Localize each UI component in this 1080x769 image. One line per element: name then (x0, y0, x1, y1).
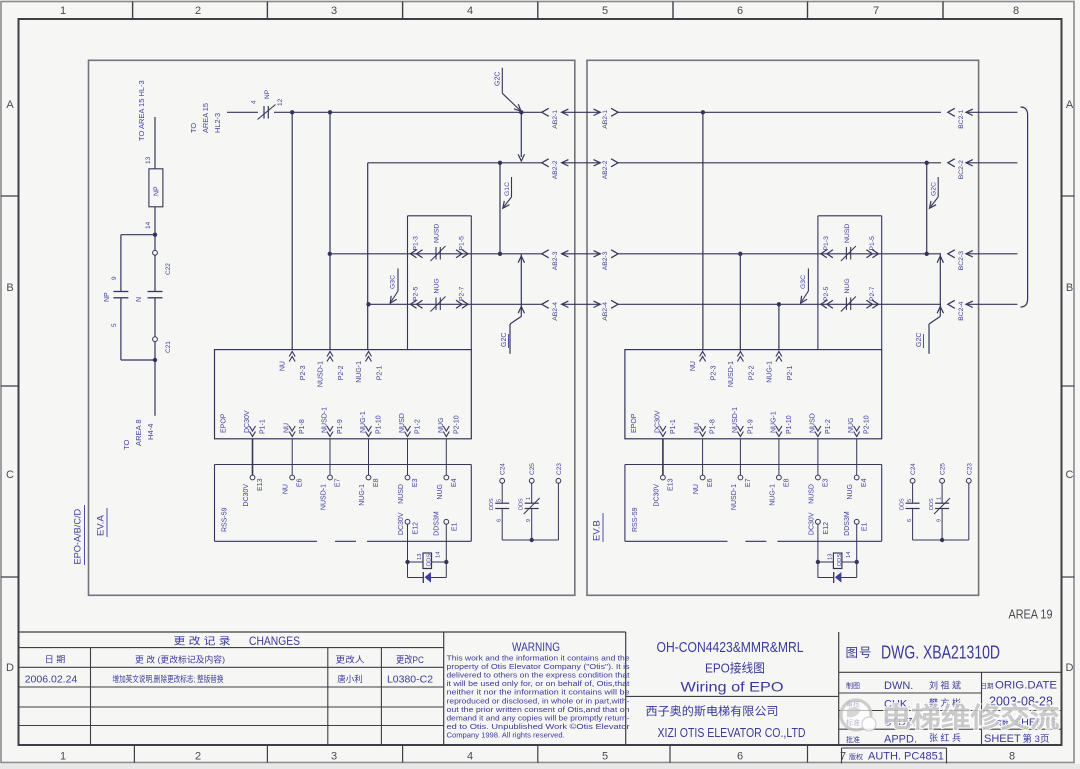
svg-text:P2-3: P2-3 (711, 365, 718, 380)
svg-text:G2C: G2C (916, 333, 923, 347)
svg-text:E6: E6 (297, 478, 304, 487)
svg-text:ORIG.DATE: ORIG.DATE (995, 680, 1057, 692)
net arrows AB2-4 between EV.A and EV.B (542, 300, 648, 321)
svg-text:NUG-1: NUG-1 (766, 361, 773, 383)
svg-text:5: 5 (497, 499, 503, 502)
capacitor N (148, 291, 163, 293)
node AB2-3 drop (EV.B) (738, 252, 742, 256)
svg-text:1: 1 (60, 751, 66, 763)
node AB2-1 drop (EV.B) (701, 110, 705, 114)
svg-text:P2-1: P2-1 (787, 365, 794, 380)
svg-text:3: 3 (331, 5, 337, 17)
svg-text:电梯维修交流: 电梯维修交流 (882, 702, 1060, 733)
switch G1C (500, 163, 512, 254)
svg-text:NU: NU (283, 484, 290, 494)
wire NU vertical (EV.B) (702, 112, 704, 350)
wire NU vertical (291, 112, 293, 349)
svg-text:G1C: G1C (504, 182, 511, 196)
terminal C23 (EV.A) (556, 463, 563, 540)
svg-text:NUG-1: NUG-1 (770, 411, 777, 433)
drawing number cell (839, 643, 1062, 673)
RSS-59 terminals E12/E1 (EV.A) (398, 511, 458, 536)
svg-text:EPOP: EPOP (221, 413, 228, 433)
svg-text:DDS3M: DDS3M (844, 511, 851, 536)
svg-text:2: 2 (195, 751, 201, 763)
wire NUG-1 vertical (EV.B) (778, 304, 780, 350)
svg-text:P2-2: P2-2 (748, 365, 755, 380)
auth row (842, 748, 947, 764)
svg-text:1: 1 (60, 5, 66, 17)
bus wire AB2-1 (EV.B) (648, 111, 941, 113)
bus wire AB2-2 (EV.B) (648, 162, 941, 164)
wire left branch down (120, 298, 122, 360)
svg-text:2: 2 (195, 5, 201, 17)
svg-text:N: N (136, 297, 143, 302)
svg-text:8: 8 (1009, 751, 1015, 763)
svg-text:NU: NU (693, 484, 700, 494)
svg-text:DDS: DDS (427, 554, 433, 566)
svg-text:西子奥的斯电梯有限公司: 西子奥的斯电梯有限公司 (646, 704, 779, 718)
svg-text:P1-3: P1-3 (413, 236, 420, 251)
svg-text:7: 7 (873, 5, 879, 17)
svg-text:7: 7 (840, 751, 846, 763)
svg-text:更 改 (更改标记及内容): 更 改 (更改标记及内容) (135, 655, 225, 665)
svg-text:EV.A: EV.A (96, 515, 107, 536)
svg-text:NUG-1: NUG-1 (359, 484, 366, 506)
pins P2-5 / P2-7 with NUG (EV.A) (411, 278, 469, 311)
watermark logo and text (841, 700, 1060, 733)
svg-text:D: D (1066, 662, 1074, 674)
svg-text:RSS-59: RSS-59 (222, 507, 229, 532)
svg-text:AUTH. PC4851: AUTH. PC4851 (868, 751, 944, 763)
svg-text:E3: E3 (822, 478, 829, 487)
EPOP top pins P2-3/P2-2/P2-1 (EV.A) (280, 352, 384, 388)
svg-text:E3: E3 (412, 478, 419, 487)
svg-text:P1-10: P1-10 (376, 415, 383, 434)
svg-text:TO: TO (122, 439, 131, 450)
svg-text:批准: 批准 (846, 735, 860, 744)
svg-text:WARNING: WARNING (512, 642, 560, 654)
svg-text:12: 12 (277, 98, 284, 106)
pins P2-5 / P2-7 with NUG (EV.B) (821, 278, 879, 311)
svg-text:P2-5: P2-5 (823, 286, 830, 301)
svg-text:P1-10: P1-10 (786, 415, 793, 434)
svg-text:6: 6 (497, 519, 503, 522)
svg-text:E8: E8 (783, 478, 790, 487)
arrester C25 (EV.B) (929, 463, 950, 540)
switch G3C (on AB2-4, EV.A) (390, 269, 399, 304)
svg-text:日 期: 日 期 (45, 655, 66, 665)
P1 sub box (EV.B) (818, 216, 882, 350)
resistor NP (149, 169, 163, 207)
svg-text:P1-8: P1-8 (710, 419, 717, 434)
svg-text:E6: E6 (707, 478, 714, 487)
svg-text:DC30V: DC30V (808, 512, 815, 535)
wire G2C to AB2-2 (520, 112, 522, 157)
svg-text:XIZI OTIS ELEVATOR CO.,LTD: XIZI OTIS ELEVATOR CO.,LTD (658, 726, 806, 740)
wires EPOP to RSS-59 (EV.A) (253, 439, 447, 475)
svg-text:6: 6 (737, 751, 743, 763)
svg-text:NUSD: NUSD (398, 484, 405, 504)
svg-text:DDS: DDS (519, 498, 525, 510)
svg-text:NU: NU (280, 361, 287, 371)
svg-text:NUG: NUG (847, 484, 854, 500)
svg-text:版权: 版权 (849, 752, 863, 761)
bus wire AB2-4 (EV.A) (369, 303, 542, 305)
svg-text:EPO-A/B/C/D: EPO-A/B/C/D (73, 508, 83, 564)
svg-text:3: 3 (331, 751, 337, 763)
svg-text:NUSD: NUSD (844, 224, 851, 243)
svg-text:C21: C21 (165, 341, 172, 353)
svg-text:P1-5: P1-5 (459, 236, 466, 251)
svg-text:C24: C24 (500, 463, 507, 475)
svg-text:NU: NU (694, 423, 701, 433)
svg-text:NP: NP (264, 90, 271, 99)
svg-text:NUG-1: NUG-1 (360, 411, 367, 433)
svg-text:AREA 15: AREA 15 (201, 103, 210, 133)
svg-text:NUSD: NUSD (808, 484, 815, 504)
svg-text:E13: E13 (667, 478, 674, 491)
capacitor common wire (EV.B) (913, 538, 969, 542)
svg-text:BC2-2: BC2-2 (958, 160, 965, 179)
capacitor C24 (EV.A) (489, 463, 509, 540)
wire branch left (121, 234, 155, 236)
svg-text:AB2-1: AB2-1 (602, 110, 609, 129)
bus wire AB2-1 (EV.A) (274, 111, 542, 113)
bus wire AB2-4 (EV.B) (648, 303, 941, 305)
svg-text:更 改 记 录: 更 改 记 录 (174, 635, 231, 648)
node BC2-2 / G2C (EV.B) (925, 161, 929, 165)
svg-text:5: 5 (602, 5, 608, 17)
switch G3C (on AB2-4, EV.B) (800, 269, 809, 304)
EPOP bottom pins P1-1..P2-10 (EV.A) (244, 407, 460, 437)
svg-text:P1-1: P1-1 (260, 419, 267, 434)
svg-text:NUG-1: NUG-1 (769, 484, 776, 506)
svg-text:H4-4: H4-4 (146, 424, 155, 440)
svg-text:BC2-1: BC2-1 (958, 109, 965, 128)
svg-text:14: 14 (436, 551, 442, 558)
svg-text:DC30V: DC30V (244, 410, 251, 433)
svg-text:G3C: G3C (800, 275, 807, 289)
net arrows BC2-3 to right bracket (948, 250, 1018, 270)
svg-text:8: 8 (1013, 5, 1019, 17)
svg-text:5: 5 (602, 751, 608, 763)
svg-text:NUG: NUG (438, 417, 445, 433)
svg-text:G2C: G2C (495, 72, 502, 86)
svg-text:E13: E13 (257, 478, 264, 491)
svg-text:BC2-3: BC2-3 (958, 251, 965, 270)
svg-text:G2C: G2C (931, 182, 938, 196)
node AB2-1 / NU drop (290, 110, 294, 114)
svg-text:AREA 8: AREA 8 (134, 419, 143, 446)
switch G2C (EV.B, BC2-2 to BC2-3) (927, 163, 939, 254)
svg-text:图号: 图号 (845, 646, 872, 660)
svg-text:B: B (1066, 282, 1073, 294)
svg-text:L0380-C2: L0380-C2 (387, 674, 433, 686)
title block rows (839, 672, 1062, 745)
switch G2C (top, EV.A) (495, 68, 522, 112)
svg-text:P2-2: P2-2 (338, 365, 345, 380)
svg-text:P2-7: P2-7 (459, 286, 466, 301)
svg-text:EPOP: EPOP (631, 413, 638, 433)
svg-text:9: 9 (111, 276, 118, 280)
svg-text:NUSD-1: NUSD-1 (317, 361, 324, 387)
warning box (444, 632, 631, 745)
svg-text:NUSD-1: NUSD-1 (728, 361, 735, 387)
changes table (19, 632, 444, 745)
svg-text:9: 9 (937, 519, 943, 522)
EV.A block outline (89, 60, 575, 595)
svg-text:1: 1 (526, 497, 532, 500)
svg-text:刘 祖 斌: 刘 祖 斌 (929, 680, 961, 691)
svg-text:NU: NU (284, 423, 291, 433)
svg-text:E12: E12 (823, 522, 830, 535)
svg-text:RSS-59: RSS-59 (632, 507, 639, 532)
svg-text:唐小利: 唐小利 (337, 674, 363, 684)
terminal C23 (EV.B) (966, 463, 973, 540)
svg-text:CHANGES: CHANGES (249, 634, 300, 648)
suppressor DDS 13-14 (EV.A) (405, 524, 448, 568)
net arrows BC2-4 to right bracket (948, 300, 1018, 321)
svg-text:AB2-4: AB2-4 (602, 302, 609, 321)
svg-text:NUSD: NUSD (434, 224, 441, 243)
svg-text:AB2-4: AB2-4 (552, 302, 559, 321)
svg-text:P1-8: P1-8 (299, 419, 306, 434)
svg-text:日期: 日期 (981, 682, 995, 690)
svg-text:B: B (6, 282, 13, 294)
svg-text:DDS3M: DDS3M (434, 511, 441, 536)
bus wire AB2-2 (EV.A) (368, 162, 542, 164)
svg-text:EPO接线图: EPO接线图 (705, 661, 765, 676)
fuse NP 4-12 (263, 106, 265, 119)
EPOP bottom pins P1-1..P2-10 (EV.B) (654, 407, 870, 437)
wire into fuse NP (227, 111, 258, 113)
svg-text:4: 4 (467, 5, 473, 17)
svg-text:5: 5 (907, 499, 913, 502)
svg-text:2006.02.24: 2006.02.24 (25, 674, 78, 686)
node AB2-1 / G2C (519, 110, 523, 114)
svg-text:NUG-1: NUG-1 (356, 361, 363, 383)
svg-text:P2-10: P2-10 (864, 415, 871, 434)
node junction above TO AREA 8 (154, 342, 156, 360)
node AB2-1 / NUSD-1 drop (328, 110, 332, 114)
connector RSS-59 (EV.B) (625, 465, 882, 542)
svg-text:NP: NP (154, 186, 161, 196)
svg-text:AB2-3: AB2-3 (552, 251, 559, 270)
svg-text:P2-10: P2-10 (453, 415, 460, 434)
wire NUSD-1 vertical (EV.B) (739, 254, 741, 351)
svg-text:C25: C25 (940, 463, 947, 475)
svg-text:1: 1 (937, 497, 943, 500)
svg-text:张 红 兵: 张 红 兵 (929, 732, 961, 743)
svg-text:DDS: DDS (929, 498, 935, 510)
svg-text:13: 13 (827, 554, 833, 560)
svg-text:AB2-2: AB2-2 (552, 160, 559, 179)
P1 sub box (EV.A) (408, 216, 472, 350)
bottom reference strip (60, 745, 1015, 763)
title centre cell (626, 632, 839, 745)
svg-text:TO: TO (189, 123, 198, 133)
node G2C / BC2-3 (EV.B) (925, 252, 929, 256)
svg-text:NUG: NUG (434, 278, 441, 293)
svg-text:DC30V: DC30V (654, 410, 661, 433)
svg-text:13: 13 (417, 554, 423, 560)
svg-text:P1-9: P1-9 (337, 419, 344, 434)
pins P1-3 / P1-5 with NUSD (EV.B) (821, 224, 879, 261)
left reference strip (1, 99, 19, 674)
svg-text:NUSD: NUSD (399, 413, 406, 433)
svg-text:C: C (1066, 469, 1074, 481)
wire BC2-3/BC2-4 tie with G2C stub (EV.B) (916, 254, 944, 354)
svg-text:NP: NP (104, 292, 111, 302)
svg-text:NU: NU (690, 361, 697, 371)
svg-text:P2-5: P2-5 (413, 286, 420, 301)
wire NUSD-1 vertical (329, 112, 331, 349)
svg-text:第 3页: 第 3页 (1023, 733, 1050, 745)
right cable bracket (1021, 107, 1028, 307)
node G1C / AB2-3 (498, 252, 502, 256)
svg-text:AREA 19: AREA 19 (1009, 608, 1053, 622)
wire AB2-2 corner down (NUG-1) (367, 163, 369, 350)
svg-text:C23: C23 (966, 463, 973, 475)
RSS-59 terminals E13/E6/E7/E8/E3/E4 (EV.B) (653, 475, 868, 510)
svg-text:E1: E1 (862, 522, 869, 531)
svg-text:6: 6 (907, 519, 913, 522)
node AB2-3 start (328, 252, 332, 256)
svg-text:Wiring of EPO: Wiring of EPO (681, 679, 784, 695)
svg-text:P1-2: P1-2 (825, 419, 832, 434)
svg-text:9: 9 (526, 519, 532, 522)
connector EPOP (EV.A) (215, 350, 472, 439)
svg-text:E1: E1 (451, 522, 458, 531)
svg-text:DWN.: DWN. (884, 680, 913, 692)
wires EPOP to RSS-59 (EV.B) (663, 439, 857, 475)
svg-text:14: 14 (145, 221, 152, 229)
svg-text:P1-2: P1-2 (415, 419, 422, 434)
svg-text:4: 4 (467, 751, 473, 763)
svg-text:NUSD-1: NUSD-1 (731, 484, 738, 510)
diode (EV.B) (818, 562, 857, 583)
EPOP top pins P2-3/P2-2/P2-1 (EV.B) (690, 352, 794, 388)
svg-text:APPD.: APPD. (884, 734, 917, 746)
svg-text:AB2-1: AB2-1 (552, 110, 559, 129)
node AB2-2 / G1C (498, 161, 502, 165)
svg-text:SHEET: SHEET (984, 733, 1021, 745)
svg-text:DWG. XBA21310D: DWG. XBA21310D (881, 643, 1000, 663)
wire resistor to node (154, 207, 156, 235)
capacitor common wire (EV.A) (502, 538, 558, 542)
svg-text:5: 5 (111, 323, 118, 327)
connector RSS-59 (EV.A) (215, 465, 472, 542)
svg-text:TO AREA 15 HL-3: TO AREA 15 HL-3 (137, 80, 146, 141)
svg-text:NUSD-1: NUSD-1 (732, 407, 739, 433)
contact C21 (154, 298, 156, 337)
svg-text:更改PC: 更改PC (396, 654, 424, 666)
svg-text:HL2-3: HL2-3 (213, 113, 222, 133)
EV.B block outline (587, 60, 979, 595)
svg-text:C24: C24 (910, 463, 917, 475)
svg-text:G3C: G3C (390, 275, 397, 289)
svg-text:A: A (1066, 99, 1074, 111)
svg-text:NUSD: NUSD (809, 413, 816, 433)
RSS-59 terminals E13/E6/E7/E8/E3/E4 (EV.A) (243, 475, 458, 510)
svg-text:NUSD-1: NUSD-1 (321, 484, 328, 510)
svg-text:AB2-3: AB2-3 (602, 251, 609, 270)
svg-text:P2-1: P2-1 (377, 365, 384, 380)
capacitor C24 (EV.B) (900, 463, 920, 540)
svg-text:6: 6 (737, 5, 743, 17)
top reference strip (60, 2, 1019, 20)
svg-text:13: 13 (145, 156, 152, 164)
svg-text:P2-7: P2-7 (869, 286, 876, 301)
svg-text:DDS: DDS (489, 498, 495, 510)
svg-text:P1-1: P1-1 (670, 419, 677, 434)
svg-text:制图: 制图 (846, 681, 860, 690)
svg-text:增加英文说明,删除更改标志; 整版替换: 增加英文说明,删除更改标志; 整版替换 (113, 674, 224, 684)
svg-text:NUG: NUG (848, 417, 855, 433)
svg-text:A: A (6, 99, 14, 111)
svg-text:NUSD-1: NUSD-1 (322, 407, 329, 433)
connector EPOP (EV.B) (625, 350, 882, 439)
svg-text:Company 1998. All rights rese: Company 1998. All rights reserved. (447, 730, 565, 739)
svg-text:NUG: NUG (844, 278, 851, 293)
node AB2-4 start (366, 302, 370, 306)
svg-text:DDS: DDS (900, 498, 906, 510)
arrester C25 (EV.A) (519, 463, 540, 540)
svg-text:14: 14 (846, 551, 852, 558)
wire stub to AREA 8 (154, 360, 156, 416)
svg-text:P1-9: P1-9 (747, 419, 754, 434)
right reference strip (1062, 99, 1075, 674)
svg-text:C25: C25 (529, 463, 536, 475)
svg-text:NUG: NUG (437, 484, 444, 500)
net arrows BC2-2 to right bracket (948, 159, 1018, 180)
svg-text:DC30V: DC30V (243, 484, 250, 507)
net arrows AB2-2 between EV.A and EV.B (542, 159, 648, 180)
node junction below NP (153, 233, 157, 237)
svg-text:P1-5: P1-5 (869, 236, 876, 251)
svg-text:E4: E4 (451, 478, 458, 487)
svg-text:OH-CON4423&MMR&MRL: OH-CON4423&MMR&MRL (657, 640, 804, 656)
svg-text:E7: E7 (335, 478, 342, 487)
bus wire AB2-3 (EV.A) (330, 253, 542, 255)
svg-text:P1-3: P1-3 (823, 236, 830, 251)
net arrows AB2-3 between EV.A and EV.B (542, 250, 648, 270)
svg-text:DC30V: DC30V (398, 512, 405, 535)
pins P1-3 / P1-5 with NUSD (EV.A) (411, 224, 469, 261)
svg-text:DDS: DDS (837, 554, 843, 566)
diode (EV.A) (408, 562, 447, 583)
svg-text:AB2-2: AB2-2 (602, 160, 609, 179)
wire from HL-3 (154, 117, 156, 169)
svg-text:更改人: 更改人 (336, 655, 366, 665)
wire AB2-3/AB2-4 tie with G2C stub (EV.A) (501, 254, 525, 354)
svg-text:4: 4 (251, 100, 258, 104)
svg-text:G2C: G2C (501, 333, 508, 347)
node AB2-4 drop (EV.B) (777, 302, 781, 306)
net arrows AB2-1 between EV.A and EV.B (542, 108, 648, 129)
net arrows BC2-1 to right bracket (948, 108, 1018, 129)
svg-text:C22: C22 (165, 263, 172, 275)
svg-text:BC2-4: BC2-4 (958, 301, 965, 320)
suppressor DDS 13-14 (EV.B) (816, 524, 859, 568)
svg-text:C23: C23 (556, 463, 563, 475)
svg-text:E7: E7 (745, 478, 752, 487)
svg-text:DC30V: DC30V (653, 484, 660, 507)
svg-text:P2-3: P2-3 (300, 365, 307, 380)
svg-text:E4: E4 (861, 478, 868, 487)
contact C22 (154, 235, 156, 251)
